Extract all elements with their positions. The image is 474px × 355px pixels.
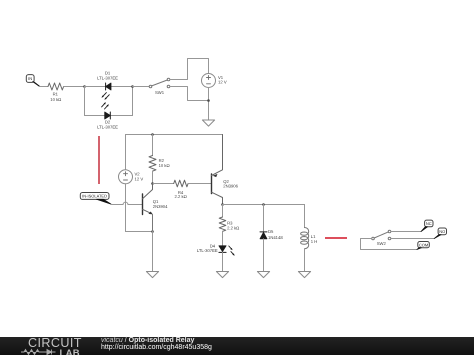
node NO flag xyxy=(434,228,446,239)
svg-text:2N3904: 2N3904 xyxy=(153,204,168,209)
svg-text:1N4148: 1N4148 xyxy=(268,235,283,240)
svg-text:2.2 kΩ: 2.2 kΩ xyxy=(174,194,186,199)
ground (L1) xyxy=(298,272,310,278)
node junction right xyxy=(131,85,134,88)
svg-text:D1: D1 xyxy=(105,70,111,75)
wire V1 bottom to ground xyxy=(208,88,210,121)
resistor R2 10k vertical xyxy=(149,135,170,184)
wire SW2 common to COM rail xyxy=(361,239,417,250)
svg-text:2.2 kΩ: 2.2 kΩ xyxy=(227,225,239,230)
wire flag to Q1 base with crossover hop xyxy=(111,202,143,204)
node COM flag xyxy=(417,242,429,250)
transistor Q2 2N3906 (PNP) xyxy=(212,135,239,205)
node junction emitter/ground xyxy=(151,230,154,233)
wire D4 to ground xyxy=(222,252,224,271)
switch SW1 xyxy=(149,78,170,95)
wire SW2 NO contact xyxy=(391,238,434,240)
svg-text:12 V: 12 V xyxy=(218,80,227,85)
wire V2 bottom to bottom rail xyxy=(125,184,127,232)
svg-text:NC: NC xyxy=(426,221,432,226)
wire R2 junction to R4 xyxy=(153,183,174,185)
resistor R4 2.2k xyxy=(174,180,188,199)
svg-text:D5: D5 xyxy=(268,229,274,234)
svg-text:IN: IN xyxy=(28,76,32,81)
svg-text:10 kΩ: 10 kΩ xyxy=(159,163,170,168)
svg-text:LTL-307EE: LTL-307EE xyxy=(97,125,118,130)
wire SW1 bottom contact to V1 bottom rail xyxy=(170,87,209,101)
node junction left xyxy=(83,85,86,88)
switch SW2 xyxy=(372,230,391,246)
ground (Q1) xyxy=(146,272,158,278)
diode D5 1N4148 (cathode up) xyxy=(260,205,283,272)
resistor R3 2.2k vertical xyxy=(219,205,239,246)
svg-text:2N3906: 2N3906 xyxy=(223,183,238,188)
wire Q1 emitter junction to ground xyxy=(152,232,154,272)
wire top rail mid section xyxy=(126,134,223,136)
svg-text:COM: COM xyxy=(419,242,428,247)
annotation red line vertical xyxy=(98,136,100,184)
node junction R2 top xyxy=(151,133,154,136)
annotation red line horizontal xyxy=(325,237,347,239)
wire collector rail right xyxy=(223,204,305,206)
svg-text:12 V: 12 V xyxy=(135,176,144,181)
wire R4 to Q2 base xyxy=(188,183,211,185)
node IN flag xyxy=(26,75,39,87)
svg-text:SW1: SW1 xyxy=(155,90,165,95)
wire left branch vertical xyxy=(84,87,86,116)
node junction V1 bottom xyxy=(207,99,210,102)
node junction R2 bottom xyxy=(151,182,154,185)
svg-text:1 H: 1 H xyxy=(311,239,318,244)
diode D4 LTL-307EE (LED pointing down) xyxy=(197,244,235,256)
wire right branch vertical xyxy=(132,87,134,116)
svg-text:D2: D2 xyxy=(105,119,111,124)
svg-text:IN-ISOLATED: IN-ISOLATED xyxy=(82,194,107,199)
voltage source V2 12V xyxy=(119,170,144,184)
wire LED box to SW1 xyxy=(133,86,150,88)
node junction Q2 collector xyxy=(221,203,224,206)
resistor R1 xyxy=(48,83,64,102)
svg-text:NO: NO xyxy=(439,229,445,234)
svg-text:SW2: SW2 xyxy=(377,241,387,246)
ground (V1) xyxy=(202,120,214,126)
ground (D4) xyxy=(216,272,228,278)
diode D1 LTL-307EE (LED pointing left) xyxy=(97,70,118,100)
ground (D5) xyxy=(257,272,269,278)
diode D2 LTL-307EE (LED pointing right) xyxy=(97,102,118,130)
inductor L1 1H xyxy=(301,205,318,272)
voltage source V1 12V xyxy=(202,74,227,88)
wire R1 to LED box xyxy=(64,86,85,88)
wire SW1 top contact to V1 top xyxy=(170,59,209,80)
footer bar xyxy=(0,337,474,355)
wire IN to R1 xyxy=(40,86,49,88)
node IN-ISOLATED flag xyxy=(80,193,111,205)
transistor Q1 2N3904 (NPN) xyxy=(143,184,169,232)
wire bottom branch xyxy=(85,115,133,117)
svg-text:LTL-307EE: LTL-307EE xyxy=(97,76,118,81)
wire V2 top lead xyxy=(125,135,127,170)
node junction D5 top xyxy=(262,203,265,206)
CircuitLab logo xyxy=(28,336,82,350)
svg-text:10 kΩ: 10 kΩ xyxy=(50,97,61,102)
node NC flag xyxy=(421,220,433,231)
footer text xyxy=(101,337,194,344)
wire SW2 NC contact xyxy=(391,231,421,233)
svg-text:LTL-307EE: LTL-307EE xyxy=(197,248,218,253)
wire bottom rail to Q1 emitter column xyxy=(126,231,153,233)
wire top branch xyxy=(85,86,133,88)
